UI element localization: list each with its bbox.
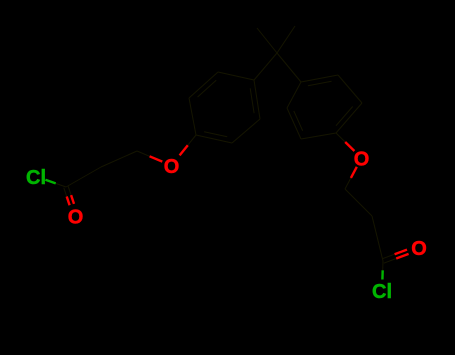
bond Cq-methyl1 xyxy=(257,28,277,53)
bond C2=O4 line1 (carbon half) xyxy=(382,254,394,259)
bond O3-C1chainR (carbon half) xyxy=(345,178,351,189)
bond CB-O3 (carbon half) xyxy=(336,133,345,142)
bond chainR 2-C2 xyxy=(372,216,383,261)
bond ring2 Q2-Q3 xyxy=(338,75,362,103)
bond CB-O3 (heteroatom half) xyxy=(345,142,354,151)
bond C2-Cl2 (carbon half) xyxy=(382,261,384,270)
bond ring2 Q6-Q1 xyxy=(287,82,301,108)
bond C3chain-O2 (heteroatom half) xyxy=(150,156,163,161)
aromatic inner line ring2 Q3=CB xyxy=(336,107,353,126)
bond C2=O4 line2 (carbon half) xyxy=(384,259,396,264)
bond ring2 Q5-Q6 xyxy=(287,108,301,139)
svg-text:O: O xyxy=(68,206,84,228)
svg-text:O: O xyxy=(164,156,180,178)
bond C3chain-O2 (carbon half) xyxy=(137,151,150,156)
bond Cq-methyl2 xyxy=(277,26,295,53)
bond C1=O1 line2 (carbon half) xyxy=(64,188,67,197)
bond ring1 P5-P6 xyxy=(232,119,260,143)
bond C2-Cl2 (heteroatom half) xyxy=(381,270,384,279)
svg-text:Cl: Cl xyxy=(372,281,392,303)
bond O2-CA(aryl) (carbon half) xyxy=(188,135,196,145)
svg-text:O: O xyxy=(354,148,370,170)
aromatic inner line ring2 Q1=Q2 xyxy=(308,81,332,85)
bond ring1 P4-P5 xyxy=(254,80,260,119)
bond Cq-Q1 xyxy=(277,53,301,82)
svg-text:O: O xyxy=(411,238,427,260)
bond ring1 P3-P4 xyxy=(218,72,254,80)
bond C1-C2chain xyxy=(66,167,101,187)
bond O3-C1chainR (heteroatom half) xyxy=(351,167,357,178)
bond ring2 Q3-CB xyxy=(336,103,362,133)
bond ring1 CA-P2 xyxy=(189,98,196,135)
bond C2chain-C3chain xyxy=(101,151,137,167)
bond C1-Cl1 (heteroatom half) xyxy=(45,180,55,184)
bond C1=O1 line1 (oxygen half) xyxy=(71,195,74,204)
bond ring1 P2-P3 xyxy=(189,72,218,98)
bond ring2 Q1-Q2 xyxy=(301,75,338,82)
bond C1=O1 line1 (carbon half) xyxy=(68,186,71,195)
bond ring2 CB-Q5 xyxy=(301,133,336,139)
aromatic inner line ring1 P4=P5 xyxy=(250,88,254,113)
aromatic inner line ring1 P2=P3 xyxy=(198,80,217,97)
aromatic inner line ring2 Q5=Q6 xyxy=(294,111,303,131)
bond chainR 1-2 xyxy=(345,189,372,216)
bond C2=O4 line2 (oxygen half) xyxy=(396,254,408,259)
bond O2-CA(aryl) (heteroatom half) xyxy=(180,145,188,155)
bond C1=O1 line2 (oxygen half) xyxy=(67,197,70,206)
bond ring1 P6-CA xyxy=(196,135,232,143)
bond C1-Cl1 (carbon half) xyxy=(56,183,66,187)
svg-text:Cl: Cl xyxy=(26,167,46,189)
aromatic inner line ring1 P6=CA xyxy=(204,132,227,137)
bond P4-Cq xyxy=(254,53,277,80)
bond C2=O4 line1 (oxygen half) xyxy=(395,250,407,255)
